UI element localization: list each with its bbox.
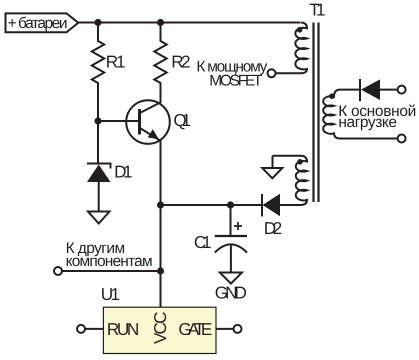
- terminal output bottom: [398, 135, 406, 143]
- transformer T1 core: [314, 23, 319, 203]
- zener diode D1: [87, 121, 133, 211]
- capacitor C1: [194, 205, 247, 273]
- terminal К другим компонентам: [54, 240, 161, 275]
- node D2-C1 junction: [227, 201, 234, 208]
- svg-text:GND: GND: [215, 283, 247, 303]
- output diode: [360, 79, 398, 101]
- ground below D1: [88, 212, 110, 224]
- node R1-base junction: [94, 117, 101, 124]
- node rail-R2 junction: [157, 19, 164, 26]
- terminal RUN: [77, 325, 103, 333]
- transformer T1 secondary winding: [323, 90, 397, 139]
- wire base: [98, 120, 138, 122]
- svg-text:U1: U1: [101, 284, 120, 304]
- svg-text:T1: T1: [309, 0, 325, 20]
- svg-text:R1: R1: [106, 52, 126, 72]
- wire top rail: [78, 22, 300, 24]
- arrow symbol on auxiliary winding: [262, 156, 282, 179]
- svg-text:MOSFET: MOSFET: [209, 73, 263, 90]
- terminal GATE: [216, 325, 242, 333]
- svg-text:нагрузке: нагрузке: [338, 114, 397, 131]
- resistor R2: [154, 23, 190, 104]
- ground below C1: [215, 273, 247, 303]
- node rail-R1 junction: [94, 19, 101, 26]
- svg-text:D2: D2: [264, 218, 283, 238]
- IC U1: [101, 284, 216, 354]
- wire emitter down to U1: [160, 139, 162, 308]
- transformer T1 primary winding: [275, 23, 307, 74]
- resistor R1: [92, 23, 126, 122]
- svg-text:Q1: Q1: [173, 110, 191, 130]
- node other-components junction: [157, 267, 164, 274]
- svg-text:D1: D1: [114, 162, 133, 182]
- terminal К мощному MOSFET: [196, 58, 275, 89]
- transistor Q1: [126, 100, 191, 144]
- svg-text:RUN: RUN: [107, 319, 139, 339]
- diode D2: [262, 194, 282, 238]
- label К основной нагрузке: [338, 103, 416, 131]
- svg-text:VCC: VCC: [150, 312, 170, 345]
- svg-text:+ батареи: + батареи: [8, 15, 68, 32]
- terminal output top: [398, 86, 406, 94]
- transformer T1 auxiliary winding: [273, 156, 308, 205]
- svg-text:GATE: GATE: [178, 319, 212, 339]
- svg-text:R2: R2: [171, 51, 190, 71]
- power flag +батареи: [6, 13, 79, 32]
- wire middle horizontal: [161, 204, 262, 206]
- svg-text:компонентам: компонентам: [66, 253, 153, 270]
- node emitter-middle junction: [157, 201, 164, 208]
- svg-text:C1: C1: [194, 232, 212, 252]
